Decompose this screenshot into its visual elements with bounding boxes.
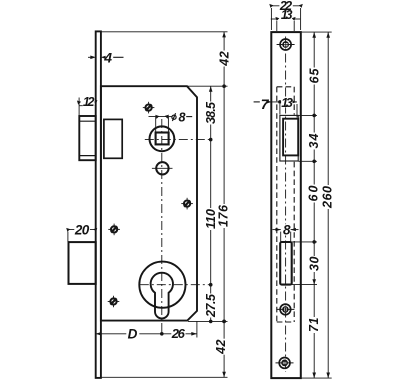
svg-text:D: D (128, 326, 138, 341)
svg-text:4: 4 (103, 50, 112, 66)
faceplate front (271, 32, 301, 378)
latch bolt head (protruding) (79, 116, 95, 160)
svg-text:26: 26 (171, 326, 186, 341)
top screw (277, 44, 295, 46)
dim 22 line (271, 5, 301, 7)
dim phi8 (spindle square) (149, 116, 169, 118)
extension line plate bottom (102, 376, 228, 378)
label 65 (rotated) (307, 67, 321, 84)
svg-text:20: 20 (74, 223, 90, 238)
dim D-26 line (96, 333, 197, 335)
svg-text:13: 13 (281, 96, 293, 110)
extension line deadbolt opening bottom (292, 284, 317, 286)
faceplate centerline (285, 37, 287, 373)
lock case body (101, 86, 197, 320)
dimension line A (38.5 / 110 / 27.5) (210, 86, 212, 321)
extension line latch opening bottom (299, 160, 318, 162)
dim 4 (plate thickness) arrows (90, 56, 105, 60)
latch opening (283, 119, 298, 156)
bottom screw (276, 362, 294, 364)
small hole below follower (156, 162, 168, 174)
case screw hole top (143, 102, 155, 114)
dim 12 (latch protrusion) (78, 98, 80, 116)
label 38.5 (rotated) (204, 101, 218, 125)
label 260 (rotated) (321, 185, 335, 209)
case screw hole left middle (108, 224, 120, 236)
extension line case bottom (188, 320, 228, 322)
follower circle (150, 126, 175, 151)
horizontal centerline through cylinder (140, 284, 213, 286)
case screw hole bottom left (108, 296, 120, 308)
svg-text:65: 65 (307, 67, 321, 83)
follower square spindle hole (156, 133, 169, 145)
dimension line D (260) (327, 32, 329, 378)
extension line case top (188, 85, 228, 87)
svg-text:71: 71 (307, 317, 321, 332)
label 13 top (281, 8, 293, 22)
dimension line C (65/34/60/30/71) (313, 32, 315, 378)
svg-text:30: 30 (307, 256, 321, 271)
vertical centerline through follower and cylinder (161, 119, 163, 335)
svg-text:260: 260 (321, 186, 335, 209)
label D (126, 326, 139, 341)
extension line faceplate bottom (302, 377, 332, 379)
deadbolt (protruding) (69, 242, 96, 284)
label 34 (rotated) (307, 133, 321, 150)
deadbolt opening (280, 242, 292, 285)
dim 22 extension lines (270, 8, 272, 30)
svg-text:27.5: 27.5 (204, 293, 218, 318)
latch bolt body inside case (104, 119, 122, 158)
dim 7 / 13 (latch opening) (254, 101, 260, 103)
label 71 (rotated) (307, 317, 321, 333)
svg-text:42: 42 (217, 51, 231, 66)
svg-text:12: 12 (83, 95, 95, 109)
extension line latch opening top (299, 114, 318, 116)
hidden lock case outline (dashed) (277, 87, 294, 322)
latch head top bevel line (79, 120, 95, 122)
label 22 (279, 0, 293, 13)
extension line plate top (102, 31, 228, 33)
svg-text:13: 13 (281, 8, 293, 22)
dim 20 (deadbolt width) (68, 229, 96, 231)
svg-text:42: 42 (214, 339, 228, 354)
cylinder outer circle (139, 262, 185, 308)
latch opening outer lip (280, 115, 298, 161)
svg-text:8: 8 (283, 222, 291, 237)
euro cylinder profile (151, 273, 173, 319)
label 176 (rotated) (217, 204, 231, 228)
dim 4 trailing dash (113, 56, 123, 58)
extension line deadbolt opening top (292, 241, 317, 243)
label 42 bottom (rotated) (214, 339, 228, 355)
label 27.5 (rotated) (204, 293, 218, 318)
label 30 (rotated) (307, 256, 321, 272)
horizontal centerline through follower (145, 139, 213, 141)
svg-text:8: 8 (179, 110, 186, 124)
label 20 (74, 223, 90, 238)
label 42 top (rotated) (217, 51, 231, 67)
svg-text:7: 7 (261, 96, 270, 112)
forend plate (side view) (96, 31, 101, 378)
svg-text:38.5: 38.5 (204, 101, 218, 124)
label 26 (171, 326, 186, 341)
dim phi8 trailing dash (186, 116, 192, 118)
horizontal tick through small hole (152, 167, 173, 169)
dimension line B (42 / 176 / 42) (223, 32, 225, 378)
case screw hole right middle (181, 198, 193, 210)
svg-text:34: 34 (307, 133, 321, 148)
svg-text:176: 176 (217, 204, 231, 227)
label 13 latch (281, 96, 293, 110)
extension line case right for 26 (196, 321, 198, 337)
middle screw (276, 308, 294, 310)
label 110 (rotated) (204, 208, 218, 230)
label 60 (rotated) (307, 185, 321, 203)
label phi 8 (172, 113, 176, 121)
label 8 (282, 222, 291, 237)
label 12 (83, 95, 95, 109)
dim 13 top (271, 18, 277, 20)
dim 8 (deadbolt opening) (273, 229, 281, 231)
extension line faceplate top (302, 31, 332, 33)
latch head bottom bevel line (79, 155, 95, 157)
